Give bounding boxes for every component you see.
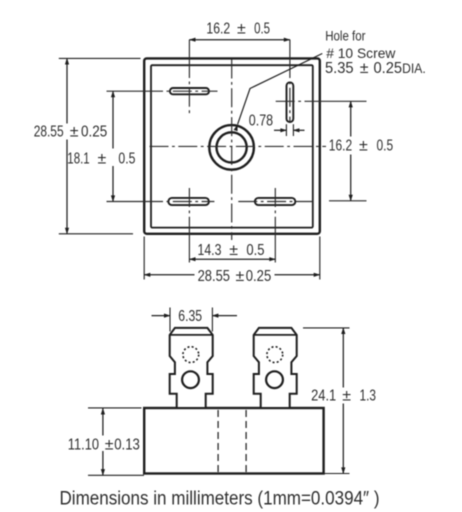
- centerline horizontal top-left slot: [107, 90, 218, 92]
- centerline horizontal right slot: [276, 100, 367, 102]
- terminal slot bottom-left: [168, 198, 209, 205]
- svg-text:16.2: 16.2: [206, 21, 230, 38]
- svg-text:0.13: 0.13: [114, 437, 140, 454]
- caption: [60, 488, 380, 510]
- svg-text:18.1: 18.1: [67, 151, 89, 168]
- centerline horizontal bottom slots: [107, 200, 367, 203]
- svg-text:±: ±: [70, 124, 79, 141]
- dimension 11.10 left: [88, 408, 144, 475]
- hole callout text: [325, 28, 396, 61]
- centerline vertical left slot column upper: [188, 40, 190, 114]
- svg-text:14.3: 14.3: [198, 242, 222, 259]
- dimension 28.55 bottom: [144, 237, 320, 280]
- terminal tab right dotted hole: [267, 347, 283, 363]
- mounting hole outer circle: [209, 125, 254, 170]
- svg-text:DIA.: DIA.: [402, 61, 426, 76]
- terminal slot bottom-right: [255, 198, 295, 205]
- centerline vertical right slot column: [289, 40, 291, 122]
- svg-text:0.5: 0.5: [254, 21, 270, 38]
- dimension 18.1 left: [112, 91, 114, 201]
- svg-text:±: ±: [236, 268, 245, 285]
- top view outer body outline: [144, 58, 320, 233]
- terminal tab left: [170, 328, 213, 407]
- svg-text:1.3: 1.3: [360, 387, 377, 404]
- terminal tab right: [254, 328, 297, 407]
- dimension 0.78 slot width: [274, 124, 305, 136]
- svg-text:0.5: 0.5: [118, 151, 135, 168]
- centerline vertical bottom-right slot column: [274, 188, 276, 263]
- svg-text:±: ±: [359, 138, 368, 155]
- svg-text:±: ±: [105, 437, 114, 454]
- side view hidden hole line left: [217, 410, 219, 472]
- mounting hole inner circle: [217, 132, 247, 162]
- svg-text:16.2: 16.2: [329, 138, 352, 155]
- top view inner body edge: [151, 65, 313, 227]
- svg-text:5.35: 5.35: [325, 60, 354, 77]
- svg-text:Dimensions in millimeters (1mm: Dimensions in millimeters (1mm=0.0394″ ): [60, 488, 380, 510]
- svg-text:±: ±: [98, 151, 107, 168]
- svg-text:28.55: 28.55: [198, 268, 230, 285]
- svg-text:28.55: 28.55: [34, 124, 64, 141]
- centerline horizontal through square center: [150, 145, 327, 147]
- svg-text:±: ±: [342, 387, 351, 404]
- terminal tab left hole: [182, 371, 199, 388]
- svg-text:0.5: 0.5: [377, 138, 394, 155]
- dimension 6.35: [152, 308, 238, 332]
- svg-text:0.25: 0.25: [81, 124, 107, 141]
- svg-text:0.78: 0.78: [249, 113, 273, 130]
- dimension 16.2 top: [189, 39, 290, 41]
- terminal tab right hole: [266, 371, 283, 388]
- svg-text:0.5: 0.5: [246, 242, 264, 259]
- svg-text:Hole for: Hole for: [325, 28, 366, 44]
- terminal slot top-left: [170, 88, 209, 94]
- dimension 28.55 left: [59, 58, 141, 233]
- centerline vertical left slot column lower: [188, 188, 190, 263]
- hole callout leader: [238, 54, 323, 125]
- svg-text:# 10 Screw: # 10 Screw: [326, 45, 396, 61]
- dimension 14.3 bottom: [189, 258, 275, 260]
- dimension 24.1 right: [303, 328, 350, 474]
- svg-text:6.35: 6.35: [178, 308, 202, 325]
- terminal slot right: [287, 82, 294, 122]
- centerline vertical through square center: [231, 60, 233, 241]
- dimension 16.2 right: [350, 101, 352, 201]
- terminal tab left dotted hole: [183, 347, 199, 363]
- side view body: [144, 408, 323, 474]
- svg-text:11.10: 11.10: [68, 437, 99, 454]
- terminal tab left bevel edge: [170, 334, 213, 336]
- side view hidden hole line right: [245, 410, 247, 472]
- svg-text:±: ±: [229, 242, 238, 259]
- svg-text:0.25: 0.25: [374, 60, 403, 77]
- svg-text:±: ±: [237, 21, 246, 38]
- svg-text:24.1: 24.1: [311, 387, 336, 404]
- svg-text:0.25: 0.25: [246, 268, 271, 285]
- svg-text:±: ±: [360, 60, 369, 77]
- terminal tab right bevel edge: [254, 334, 297, 336]
